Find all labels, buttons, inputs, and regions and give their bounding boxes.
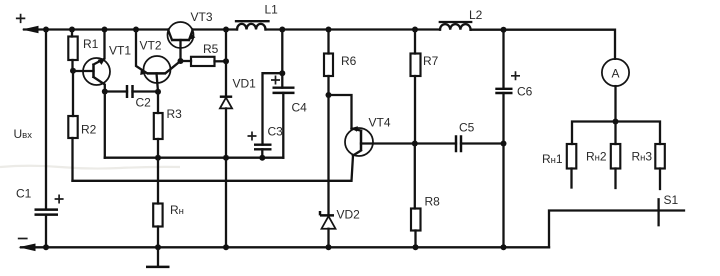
svg-text:VD1: VD1 <box>233 77 257 91</box>
diode VD1 <box>220 95 232 97</box>
node bottom rail / C1 <box>43 244 49 250</box>
wire low node wire (y=157.7) <box>105 157 283 159</box>
capacitor C5 <box>456 135 461 152</box>
resistor R1 <box>71 30 73 37</box>
node VD1 / bottom rail <box>223 244 229 250</box>
wire VT4 base (y=143.5) <box>361 142 456 144</box>
capacitor C2 <box>105 90 127 92</box>
wire top rail right segment (L2 to ammeter corner) <box>471 30 616 59</box>
transistor VT2 <box>144 56 171 83</box>
transistor VT4 <box>345 128 373 156</box>
node C2 / VT2 base / R3 <box>155 89 161 95</box>
wire top rail middle segment (VT3 to L1) <box>193 28 238 30</box>
transistor VT1 <box>83 58 110 85</box>
plus terminal label <box>16 14 25 23</box>
node R1 top <box>69 27 75 33</box>
node R7 top rail <box>412 27 418 33</box>
node C3 / low wire <box>259 155 265 161</box>
resistor Rн2 <box>614 122 616 145</box>
node C6 / bottom rail <box>501 244 507 250</box>
resistor R5 <box>181 60 192 62</box>
plus mark C1 <box>55 195 64 204</box>
svg-text:R2: R2 <box>81 123 97 137</box>
wire VT4 emitter to R6 node <box>329 95 352 129</box>
node VT2 base top rail <box>133 27 139 33</box>
svg-text:Uвх: Uвх <box>14 127 33 141</box>
node L2 right / C6 <box>501 27 507 33</box>
plus mark C4 <box>271 76 280 85</box>
wire load bus <box>572 122 660 145</box>
node C3/C4 branch <box>279 70 285 76</box>
wire R2 bottom to VT4 collector (long feedback wire) <box>73 156 354 181</box>
wire ammeter to load bus <box>614 86 616 121</box>
node VT1 emitter / C2 <box>102 89 108 95</box>
capacitor C4 <box>281 73 283 87</box>
resistor Rн3 <box>655 144 665 169</box>
node R6 / VD2 / VT4 emitter <box>326 92 332 98</box>
node top rail / C1 column <box>43 27 49 33</box>
node VT2 collector / VT3 base / R5 <box>178 58 184 64</box>
svg-text:A: A <box>611 67 619 81</box>
wire C4 column top <box>281 30 283 74</box>
wire VD1 column upper <box>225 30 227 97</box>
node C5 / C6 column <box>501 141 507 147</box>
svg-text:VT4: VT4 <box>369 115 391 129</box>
output - arrow <box>19 244 36 252</box>
resistor R6 <box>327 30 329 54</box>
svg-text:R7: R7 <box>423 54 439 68</box>
svg-text:S1: S1 <box>664 193 679 207</box>
resistor R2 <box>72 71 74 116</box>
svg-text:VT2: VT2 <box>140 39 162 53</box>
wire top rail segment L1 to L2 <box>266 28 441 30</box>
node R1/R2/VT1 base <box>70 68 76 74</box>
plus mark C3 <box>248 132 257 141</box>
svg-text:VT3: VT3 <box>191 10 213 24</box>
wire branch to C3 <box>263 73 283 144</box>
node VD1 top rail <box>223 27 229 33</box>
wire C2 node down to low wire <box>104 92 106 158</box>
svg-text:VT1: VT1 <box>109 44 131 58</box>
svg-text:Rн3: Rн3 <box>632 149 653 163</box>
svg-text:Rн1: Rн1 <box>542 152 563 166</box>
resistor R3 <box>157 92 159 113</box>
capacitor C3 <box>254 145 272 150</box>
resistor R8 <box>414 144 416 209</box>
capacitor C6 <box>502 30 504 89</box>
svg-text:Rн2: Rн2 <box>586 149 607 163</box>
wire VT1 base <box>73 70 94 72</box>
node Rн / bottom rail <box>155 244 161 250</box>
svg-text:C2: C2 <box>136 96 152 110</box>
faint scan streak <box>0 166 180 169</box>
wire bottom rail <box>21 246 549 248</box>
svg-text:R1: R1 <box>83 37 99 51</box>
wire VT2 emitter from rail <box>136 30 147 74</box>
wire VD2 column <box>327 95 329 215</box>
node load bus <box>613 119 619 125</box>
wire top rail left segment <box>24 28 169 30</box>
svg-text:L2: L2 <box>469 8 483 22</box>
ammeter A <box>602 59 629 86</box>
svg-text:L1: L1 <box>265 2 279 16</box>
node L1 right / C4 column <box>279 27 285 33</box>
node R5 / VD1 column <box>223 58 229 64</box>
diode VD2 (zener) <box>320 211 334 215</box>
svg-text:R3: R3 <box>167 107 183 121</box>
resistor Rн <box>157 158 159 204</box>
svg-text:C3: C3 <box>268 124 284 138</box>
switch S1 <box>657 199 659 225</box>
svg-text:R6: R6 <box>341 54 357 68</box>
inductor L2 <box>440 24 471 30</box>
input + arrow <box>22 26 39 34</box>
wire C1 column upper <box>45 30 47 210</box>
resistor R7 <box>414 30 416 54</box>
capacitor C1 <box>35 210 59 215</box>
svg-text:R8: R8 <box>425 195 441 209</box>
svg-text:R5: R5 <box>203 42 219 56</box>
resistor Rн1 <box>567 144 577 169</box>
plus mark C6 <box>511 71 520 80</box>
wire VD1 lower to bottom rail <box>225 108 227 247</box>
svg-text:C1: C1 <box>16 186 32 200</box>
transistor VT3 <box>168 22 194 48</box>
node VT1 collector / top rail <box>102 27 108 33</box>
minus terminal label <box>18 238 28 240</box>
svg-text:VD2: VD2 <box>337 208 361 222</box>
node VD1 / low wire <box>223 155 229 161</box>
inductor L1 <box>237 24 266 30</box>
svg-text:C4: C4 <box>292 100 308 114</box>
ground <box>157 247 159 266</box>
wire C1 to bottom rail <box>45 215 47 248</box>
svg-text:C6: C6 <box>517 84 533 98</box>
wire C6 column to bottom rail <box>502 144 504 248</box>
node R7/R8/C5 <box>412 141 418 147</box>
svg-text:Rн: Rн <box>170 203 184 217</box>
svg-text:C5: C5 <box>459 121 475 135</box>
node R8 / bottom rail <box>413 244 419 250</box>
node VD2 / bottom rail <box>326 244 332 250</box>
node R6 top rail <box>326 27 332 33</box>
wire S1 riser <box>549 211 684 248</box>
node R3 / low wire / Rн <box>155 155 161 161</box>
